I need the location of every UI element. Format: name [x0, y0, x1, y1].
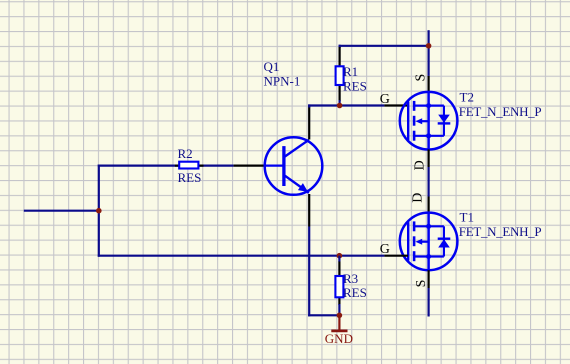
svg-text:S: S [414, 280, 429, 288]
svg-text:G: G [380, 242, 390, 257]
wire: base wire to R2 and Q1 [98, 165, 234, 167]
pin: T2 source [428, 76, 430, 92]
junction top rail [426, 43, 432, 49]
wire: emitter down and over [308, 227, 310, 317]
pin: Q1 emitter [308, 194, 310, 227]
junction at left stub [96, 208, 102, 214]
junction R3 top [337, 253, 343, 259]
junction R1 bottom [337, 103, 343, 109]
wire: left input stub [24, 210, 99, 212]
pin: T1 drain [428, 197, 430, 213]
svg-text:D: D [413, 160, 428, 170]
junction GND node [337, 313, 343, 319]
svg-text:GND: GND [325, 331, 353, 346]
svg-text:NPN-1: NPN-1 [264, 73, 301, 88]
resistor R3 [335, 256, 343, 316]
wire: drain link between T2 and T1 [428, 167, 430, 197]
resistor R1 [336, 47, 344, 106]
ground [331, 315, 347, 331]
wire: T2 gate wire [308, 104, 310, 107]
svg-text:RES: RES [343, 285, 367, 300]
svg-text:FET_N_ENH_P: FET_N_ENH_P [459, 224, 542, 239]
svg-text:R3: R3 [343, 271, 358, 286]
mosfet T1 [400, 213, 458, 271]
transistor Q1 [234, 137, 323, 195]
wire: left vertical [98, 165, 100, 257]
wire: bottom stub below T1 [428, 288, 430, 317]
pin: T2 drain [428, 149, 430, 167]
pin: T2 gate [384, 104, 408, 106]
svg-text:R1: R1 [343, 64, 358, 79]
svg-text:S: S [413, 74, 428, 82]
svg-text:R2: R2 [178, 146, 193, 161]
resistor R2 [175, 162, 204, 169]
svg-text:RES: RES [343, 79, 367, 94]
svg-text:T1: T1 [460, 210, 474, 225]
svg-text:FET_N_ENH_P: FET_N_ENH_P [459, 104, 542, 119]
svg-text:D: D [411, 193, 426, 203]
svg-text:T2: T2 [460, 90, 474, 105]
wire: top rail stub [428, 30, 430, 76]
wire: bottom wire to T1 gate [98, 255, 385, 257]
pin: T1 gate [384, 255, 408, 257]
pin: T1 source [428, 270, 430, 288]
wire: R1 top corner [339, 45, 341, 48]
mosfet T2 [400, 92, 458, 150]
svg-text:G: G [380, 92, 390, 107]
svg-text:Q1: Q1 [264, 59, 280, 74]
pin: Q1 collector [308, 107, 310, 140]
svg-text:RES: RES [178, 170, 202, 185]
